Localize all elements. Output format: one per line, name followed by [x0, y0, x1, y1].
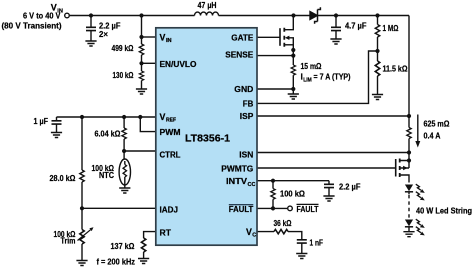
resistor R9 137k: [141, 238, 145, 259]
label 28.0k: [50, 173, 76, 183]
pin CTRL: [160, 149, 181, 159]
label COUT: [345, 21, 367, 31]
LED light arrows: [416, 219, 425, 235]
ground below 137k: [138, 259, 149, 264]
LED light arrows: [416, 184, 425, 200]
pin RT: [160, 227, 172, 237]
wire INTVCC: [257, 180, 329, 182]
svg-text:NTC: NTC: [99, 170, 114, 180]
wire VIN rail to inductor: [70, 15, 195, 17]
label FAULT terminal: [297, 204, 320, 214]
ground LED string: [403, 232, 414, 237]
resistor R11 28.0k: [80, 117, 84, 208]
wire to EN/UVLO pin: [142, 62, 156, 64]
label 137k: [111, 241, 135, 251]
wire PWMTG: [257, 167, 396, 169]
svg-text:1 nF: 1 nF: [310, 238, 324, 248]
pin INTVCC: [226, 176, 256, 188]
junction 6.04k tap: [122, 115, 126, 119]
svg-text:GATE: GATE: [231, 32, 253, 42]
svg-text:V: V: [160, 112, 166, 122]
label 40W led string: [416, 206, 472, 216]
junction FB divider top: [375, 13, 379, 17]
ground below sense: [288, 89, 299, 99]
junction PWM tap: [138, 115, 142, 119]
svg-text:CC: CC: [248, 182, 256, 188]
svg-text:FAULT: FAULT: [297, 204, 320, 214]
svg-text:625 mΩ: 625 mΩ: [424, 119, 450, 129]
resistor R6 625mohm: [407, 116, 411, 153]
svg-text:FAULT: FAULT: [229, 204, 254, 214]
svg-text:PWM: PWM: [160, 127, 181, 137]
svg-text:1 MΩ: 1 MΩ: [383, 23, 399, 33]
current arrow 0.4A: [415, 115, 420, 148]
IC pin labels: [160, 32, 257, 238]
capacitor C3 2.2uF: [323, 181, 334, 201]
label 130k: [113, 70, 134, 80]
LED D3: [405, 220, 413, 232]
svg-text:47 µH: 47 µH: [198, 0, 217, 10]
pin ISP: [240, 111, 254, 121]
inductor L1 47uH: [195, 12, 219, 15]
svg-text:15 mΩ: 15 mΩ: [301, 61, 322, 71]
svg-text:V: V: [246, 227, 252, 237]
svg-text:130 kΩ: 130 kΩ: [113, 70, 134, 80]
resistor R1 499k: [139, 44, 143, 63]
junction VIN pin: [139, 35, 143, 39]
svg-text:6.04 kΩ: 6.04 kΩ: [95, 129, 121, 139]
pin SENSE: [225, 50, 253, 60]
junction PMOS source: [407, 158, 411, 162]
resistor R5 11.5k: [375, 51, 379, 95]
junction IADJ: [80, 206, 84, 210]
label 15mohm: [301, 61, 351, 83]
LED D2: [405, 185, 413, 195]
junction GND pin node: [291, 87, 295, 91]
pin PWM: [160, 127, 181, 137]
junction output cap: [334, 13, 338, 17]
svg-text:40 W Led String: 40 W Led String: [416, 206, 472, 216]
label 100k pullup: [280, 189, 305, 199]
ground below trim: [76, 261, 87, 266]
label 1uF: [34, 116, 49, 126]
svg-text:CTRL: CTRL: [160, 149, 181, 159]
diode D1 schottky: [310, 7, 320, 23]
resistor R7 100k pullup: [271, 181, 275, 209]
svg-text:ISP: ISP: [240, 111, 254, 121]
svg-text:LT8356-1: LT8356-1: [185, 133, 231, 144]
transistor Q1 NMOS switch: [257, 16, 293, 56]
pin VIN: [160, 32, 172, 44]
svg-text:(80 V Transient): (80 V Transient): [2, 20, 62, 30]
junction FAULT: [271, 206, 275, 210]
pin GND: [234, 84, 253, 94]
pin FAULT: [229, 204, 254, 214]
svg-text:0.4 A: 0.4 A: [424, 130, 441, 140]
wire VOUT down right edge: [408, 16, 410, 117]
wire down to VIN pin: [141, 16, 143, 45]
wire ISP: [257, 115, 409, 117]
label VIN terminal: [2, 3, 63, 31]
label 2.2uF intvcc: [339, 182, 361, 192]
resistor R2 130k: [139, 63, 143, 89]
wire diode to corner: [318, 15, 410, 17]
svg-text:1 µF: 1 µF: [34, 116, 49, 126]
wire GND pin: [257, 88, 293, 90]
junction divider tap: [139, 13, 143, 17]
svg-text:2×: 2×: [99, 29, 108, 39]
resistor R3 15mohm sense: [291, 56, 295, 89]
svg-text:EN/UVLO: EN/UVLO: [160, 59, 197, 69]
svg-text:GND: GND: [234, 84, 253, 94]
wire VC: [257, 231, 274, 233]
svg-text:INTV: INTV: [226, 176, 247, 186]
wire IADJ: [82, 207, 156, 209]
junction source body: [291, 48, 295, 52]
pin EN/UVLO: [160, 59, 197, 69]
node FAULT terminal: [288, 206, 293, 211]
svg-text:REF: REF: [166, 118, 177, 124]
svg-text:FB: FB: [243, 99, 254, 109]
wire CTRL: [124, 150, 156, 152]
svg-text:LIM: LIM: [303, 77, 312, 83]
wire to comp cap: [288, 232, 302, 240]
svg-text:2.2 µF: 2.2 µF: [339, 182, 361, 192]
label 36k: [274, 218, 292, 228]
pin FB: [243, 99, 254, 109]
pin GATE: [231, 32, 253, 42]
wire dashed LED string: [408, 195, 410, 219]
label 100k NTC: [92, 163, 115, 180]
junction input cap: [89, 13, 93, 17]
junction EN/UVLO: [139, 61, 143, 65]
ground below 11.5k: [372, 95, 383, 100]
potentiometer R12 100k trim: [78, 208, 94, 260]
resistor R4 1M: [375, 16, 379, 52]
capacitor CIN 2.2uF 2x: [85, 16, 96, 47]
wire ISN: [257, 152, 409, 154]
junction INTVCC: [271, 179, 275, 183]
node VIN input terminal: [65, 13, 70, 18]
svg-text:IADJ: IADJ: [160, 205, 179, 215]
svg-text:SENSE: SENSE: [225, 50, 253, 60]
pin VREF: [160, 112, 177, 124]
svg-text:4.7 µF: 4.7 µF: [345, 21, 367, 31]
capacitor C4 1nF: [296, 240, 307, 259]
svg-text:f = 200 kHz: f = 200 kHz: [97, 256, 136, 266]
svg-text:100 kΩ: 100 kΩ: [280, 189, 305, 199]
resistor R10 6.04k: [122, 117, 126, 151]
junction switch node: [291, 13, 295, 17]
wire FB link: [257, 51, 378, 103]
label CIN: [99, 21, 121, 39]
svg-text:36 kΩ: 36 kΩ: [274, 218, 292, 228]
pin ISN: [239, 149, 253, 159]
pin IADJ: [160, 205, 179, 215]
svg-text:RT: RT: [160, 227, 172, 237]
svg-text:ISN: ISN: [239, 149, 253, 159]
wire inductor to diode: [219, 15, 311, 17]
svg-text:6 V to 40 V: 6 V to 40 V: [23, 11, 61, 21]
wire VREF rail: [57, 116, 156, 118]
svg-text:Trim: Trim: [61, 236, 76, 246]
ground below NTC: [119, 188, 130, 193]
junction ISN: [407, 150, 411, 154]
IC U1 LT8356-1: [156, 28, 257, 245]
ground below 130k: [136, 89, 147, 94]
pin PWMTG: [221, 164, 253, 174]
label 499k: [112, 43, 134, 53]
junction ISP: [407, 114, 411, 118]
svg-text:28.0 kΩ: 28.0 kΩ: [50, 173, 76, 183]
wire RT: [144, 232, 156, 238]
svg-text:C: C: [252, 233, 256, 239]
svg-text:PWMTG: PWMTG: [221, 164, 253, 174]
chip name LT8356-1: [185, 133, 231, 144]
label 1nF: [310, 238, 324, 248]
label 100k trim: [54, 229, 76, 246]
capacitor COUT 4.7uF: [330, 16, 341, 45]
junction sense node: [291, 54, 295, 58]
label 11.5k: [383, 64, 408, 74]
resistor R8 36k: [274, 229, 288, 233]
label 6.04k: [95, 129, 121, 139]
pin VC: [246, 227, 256, 239]
svg-text:499 kΩ: 499 kΩ: [112, 43, 134, 53]
label 625mohm: [424, 119, 450, 141]
wire FAULT: [257, 207, 287, 209]
svg-text:V: V: [160, 32, 166, 42]
thermistor RT1 100k NTC: [119, 151, 130, 188]
wire to VIN pin: [142, 36, 156, 38]
junction 28k tap: [80, 115, 84, 119]
wire SENSE pin: [257, 55, 293, 57]
junction FB divider mid: [375, 49, 379, 53]
label f=200kHz: [97, 256, 136, 266]
svg-text:11.5 kΩ: 11.5 kΩ: [383, 64, 408, 74]
wire PWM link: [140, 117, 156, 132]
capacitor C5 1uF: [51, 117, 62, 138]
svg-text:137 kΩ: 137 kΩ: [111, 241, 135, 251]
label 47uH: [198, 0, 217, 10]
svg-text:IN: IN: [166, 38, 172, 44]
transistor Q2 PMOS dimming: [396, 153, 409, 183]
junction CTRL: [122, 149, 126, 153]
label 1M: [383, 23, 399, 33]
svg-text:= 7 A (TYP): = 7 A (TYP): [314, 72, 351, 82]
